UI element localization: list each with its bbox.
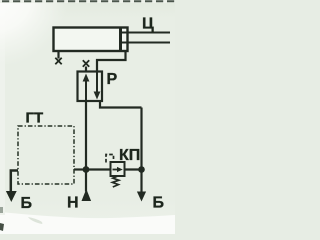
wire: junction to relief valve КП — [86, 168, 111, 170]
arrow from pump Н (up triangle) — [82, 189, 92, 201]
wire: ГТ box left drain to tank Б — [11, 171, 18, 192]
wire: pump pressure line below valve Р — [85, 101, 87, 192]
arrow to tank Б left (down triangle) — [6, 191, 17, 202]
pilot dashed line of relief valve КП — [106, 155, 114, 163]
svg-text:Б: Б — [21, 195, 33, 212]
svg-text:КП: КП — [119, 147, 140, 164]
valve P (Р) body — [78, 72, 103, 102]
arrowhead of down arrow inside valve Р — [94, 92, 101, 100]
piston rod lower line — [122, 42, 170, 44]
wire: valve Р tank exit to right tank line — [100, 101, 142, 108]
wire: relief valve КП to right tank line — [125, 168, 142, 170]
junction dot at pump line / КП / ГТ node — [83, 166, 90, 173]
svg-text:Н: Н — [67, 195, 79, 212]
svg-text:Ц: Ц — [142, 16, 154, 33]
spring of relief valve КП — [112, 176, 118, 187]
piston rod upper line — [122, 32, 170, 34]
wire: valve Р top-left closed port stub — [85, 67, 87, 72]
cylinder C1 (Ц) body — [54, 28, 128, 52]
plugged port mark X at valve Р top-left — [83, 60, 89, 66]
flow arrow inside relief valve КП — [113, 169, 120, 171]
up arrow inside valve Р — [85, 78, 87, 102]
plugged port mark X at cylinder left port — [55, 58, 61, 64]
svg-text:Б: Б — [153, 195, 165, 212]
wire: cylinder left port stub — [57, 51, 59, 59]
svg-text:Р: Р — [107, 71, 118, 88]
wire: right tank line down to Б — [140, 108, 142, 193]
arrowhead of up arrow inside valve Р — [83, 74, 90, 82]
box ГТ (dash-dot) — [18, 126, 74, 184]
down arrow inside valve Р — [96, 72, 98, 97]
junction dot at right tank line / КП node — [138, 166, 145, 173]
arrow to tank Б right (down triangle) — [137, 192, 146, 202]
relief valve КП body — [111, 162, 125, 176]
wire: cylinder right port down to valve P (staircase) — [97, 51, 126, 73]
svg-text:ГТ: ГТ — [26, 110, 44, 127]
piston of cylinder Ц — [119, 28, 122, 52]
wire: ГТ box to pump line junction — [74, 168, 86, 170]
